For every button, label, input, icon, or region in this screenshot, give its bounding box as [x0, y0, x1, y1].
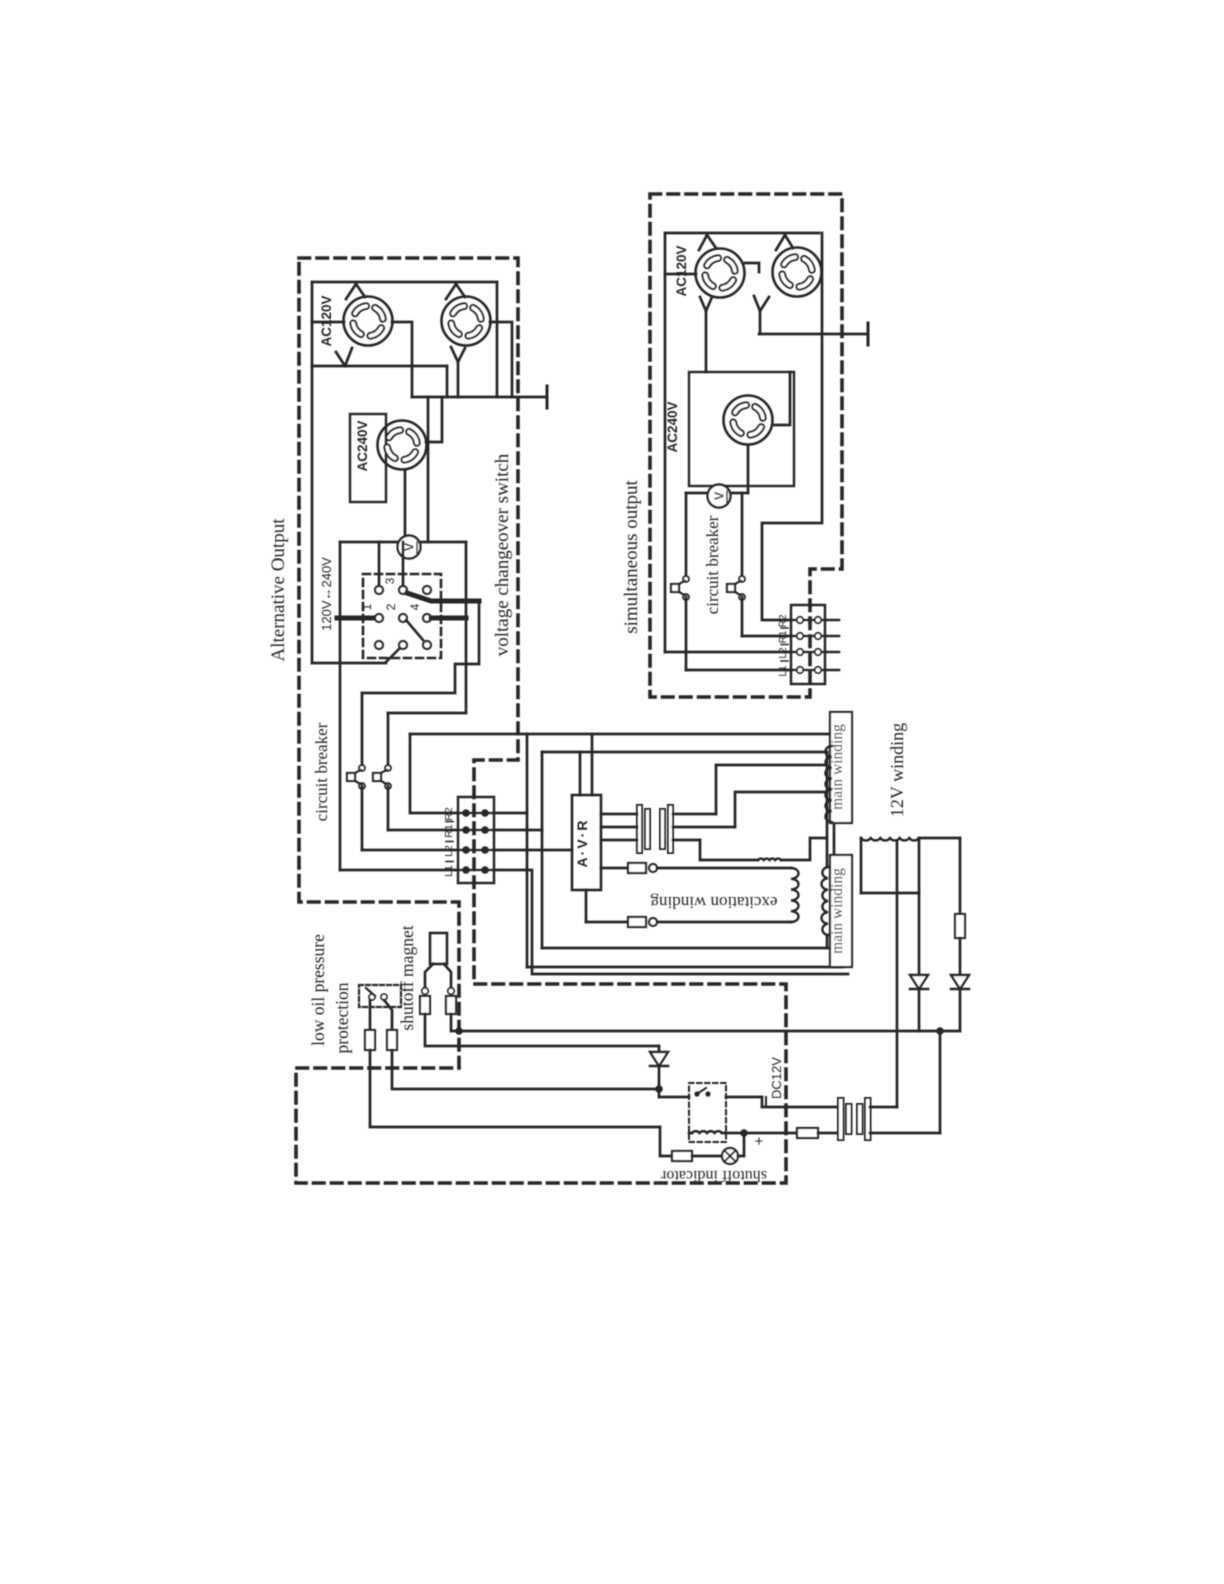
svg-text:R1: R1	[778, 630, 789, 643]
svg-text:L1: L1	[443, 865, 455, 877]
svg-text:120V↔240V: 120V↔240V	[319, 557, 334, 631]
svg-text:protection: protection	[332, 982, 352, 1053]
svg-text:main winding: main winding	[829, 868, 846, 954]
svg-text:+: +	[751, 1136, 768, 1145]
svg-text:low oil pressure: low oil pressure	[308, 934, 328, 1046]
svg-text:2: 2	[384, 603, 398, 610]
svg-text:DC12V: DC12V	[769, 1057, 784, 1099]
svg-text:1: 1	[360, 603, 374, 610]
svg-text:V: V	[403, 542, 417, 551]
svg-text:shutoff magnet: shutoff magnet	[397, 925, 417, 1030]
svg-text:AC120V: AC120V	[674, 245, 689, 296]
svg-text:3: 3	[383, 577, 397, 584]
svg-text:AC240V: AC240V	[665, 401, 680, 452]
svg-text:excitation winding: excitation winding	[650, 893, 778, 912]
svg-text:A·V·R: A·V·R	[574, 819, 590, 868]
svg-text:L2: L2	[443, 845, 455, 857]
svg-text:Alternative Output: Alternative Output	[268, 518, 289, 662]
svg-text:V: V	[713, 491, 727, 500]
svg-text:AC240V: AC240V	[355, 420, 370, 471]
svg-text:R1: R1	[443, 824, 455, 838]
svg-text:voltage changeover switch: voltage changeover switch	[492, 453, 513, 656]
svg-text:L2: L2	[778, 647, 789, 659]
svg-text:R2: R2	[778, 614, 789, 627]
svg-text:circuit breaker: circuit breaker	[703, 515, 722, 614]
svg-text:4: 4	[408, 603, 422, 610]
svg-text:L1: L1	[778, 665, 789, 677]
svg-text:main winding: main winding	[829, 724, 846, 810]
svg-text:R2: R2	[443, 807, 455, 821]
svg-text:simultaneous output: simultaneous output	[621, 479, 642, 633]
svg-text:circuit breaker: circuit breaker	[312, 722, 331, 821]
svg-text:12V winding: 12V winding	[887, 723, 907, 817]
svg-text:AC120V: AC120V	[319, 295, 334, 346]
